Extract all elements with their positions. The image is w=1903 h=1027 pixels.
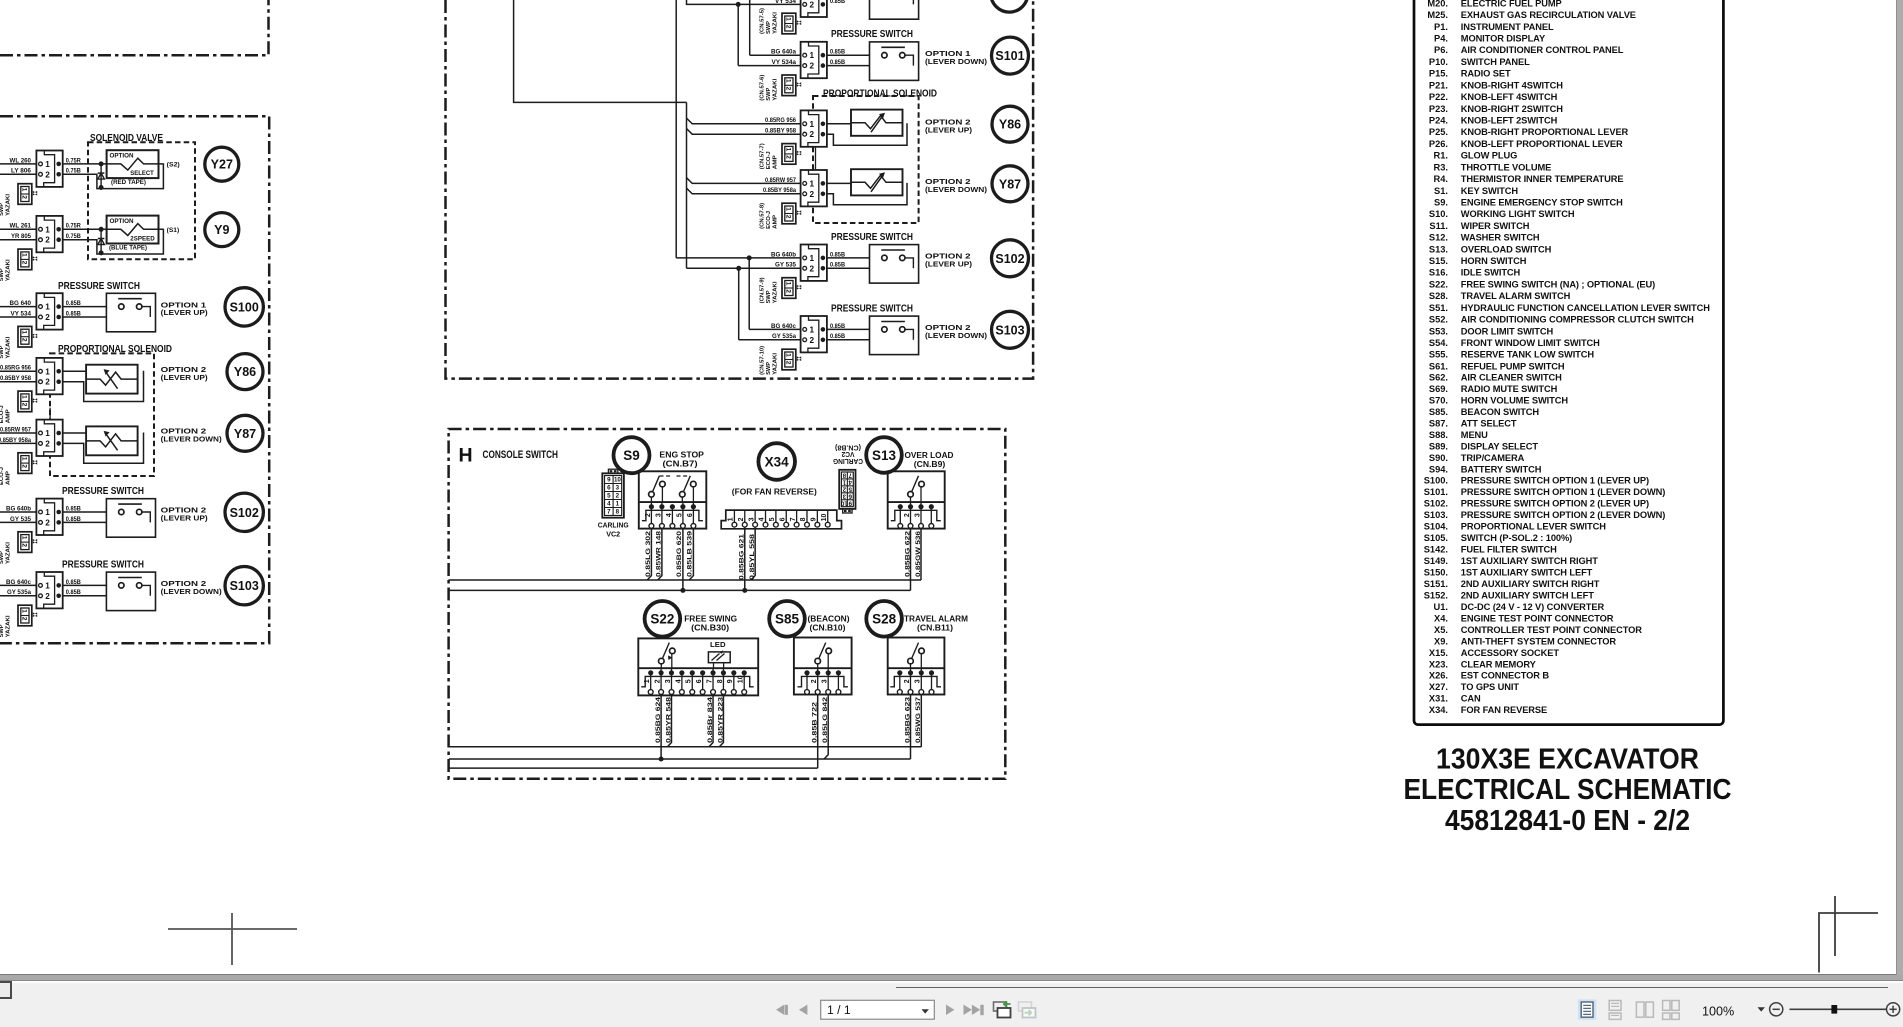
svg-text:CONSOLE SWITCH: CONSOLE SWITCH <box>483 449 559 461</box>
svg-text:0.85BY 958a: 0.85BY 958a <box>763 187 797 194</box>
connector Y87c (2-pin) <box>801 170 827 206</box>
svg-text:ECO-J: ECO-J <box>0 405 5 423</box>
wire S101 pin2 <box>827 65 916 67</box>
solenoid valve dashed box <box>88 142 195 259</box>
last page button <box>964 1005 984 1016</box>
wire S22 pin3 drop <box>667 695 671 747</box>
svg-text:2: 2 <box>810 130 815 139</box>
svg-text:S61.: S61. <box>1429 361 1448 371</box>
svg-text:(CN.57-6): (CN.57-6) <box>759 75 765 101</box>
svg-text:THERMISTOR INNER TEMPERATURE: THERMISTOR INNER TEMPERATURE <box>1461 174 1624 184</box>
wire Y27 pin2 return <box>63 163 164 188</box>
svg-text:6: 6 <box>696 679 703 683</box>
svg-text:(S2): (S2) <box>167 161 180 168</box>
svg-text:1: 1 <box>21 457 28 461</box>
svg-text:AMP: AMP <box>6 409 12 423</box>
svg-text:1: 1 <box>785 282 792 286</box>
diode Y27 flyback <box>100 164 102 188</box>
page number box <box>821 1000 935 1019</box>
svg-text:VY 534: VY 534 <box>11 310 32 317</box>
svg-text:M25.: M25. <box>1427 10 1448 20</box>
svg-text:X4.: X4. <box>1434 613 1448 623</box>
circle S102 center <box>992 240 1029 277</box>
connector S13 pins <box>891 510 941 520</box>
svg-text:KNOB-RIGHT PROPORTIONAL LEVER: KNOB-RIGHT PROPORTIONAL LEVER <box>1461 127 1629 137</box>
previous page button <box>799 1005 807 1015</box>
svg-text:DISPLAY SELECT: DISPLAY SELECT <box>1461 441 1539 451</box>
svg-text:S102: S102 <box>230 506 259 520</box>
svg-text:S22: S22 <box>650 612 674 627</box>
svg-text:S103.: S103. <box>1424 510 1448 520</box>
svg-text:AMP: AMP <box>773 155 779 169</box>
wire S103L pin1 <box>63 584 118 586</box>
svg-text:1: 1 <box>785 148 792 152</box>
wire top stub to S100c pin2 <box>687 0 805 4</box>
svg-text:2: 2 <box>810 0 815 9</box>
circle Y87 left <box>227 415 263 451</box>
svg-text:KNOB-LEFT 4SWITCH: KNOB-LEFT 4SWITCH <box>1461 92 1558 102</box>
svg-text:1: 1 <box>810 179 815 188</box>
svg-text:AIR CONDITIONING COMPRESSOR CL: AIR CONDITIONING COMPRESSOR CLUTCH SWITC… <box>1461 315 1694 325</box>
junction dot S102c pin2 / Vf <box>736 266 741 271</box>
svg-text:1: 1 <box>45 303 50 312</box>
svg-text:S69.: S69. <box>1429 384 1448 394</box>
svg-text:SWP: SWP <box>0 268 5 281</box>
svg-text:(LEVER DOWN): (LEVER DOWN) <box>161 435 223 444</box>
connector S102L (2-pin) <box>36 499 62 535</box>
svg-text:FREE SWING SWITCH (NA) ; OPTIO: FREE SWING SWITCH (NA) ; OPTIONAL (EU) <box>1461 279 1655 289</box>
svg-text:S102: S102 <box>995 252 1024 266</box>
svg-text:4: 4 <box>666 513 673 517</box>
wire harness V1 <box>514 0 687 102</box>
svg-text:OPTION: OPTION <box>110 218 134 225</box>
switch pole S9b <box>680 492 686 498</box>
circle S103 center <box>992 311 1029 348</box>
svg-text:P21.: P21. <box>1429 80 1448 90</box>
junction dot S9 pin5 on bus2 <box>680 588 685 593</box>
svg-text:S22.: S22. <box>1429 279 1448 289</box>
connector S85 pins <box>798 676 848 686</box>
svg-text:2: 2 <box>21 261 28 265</box>
svg-text:9: 9 <box>811 517 818 521</box>
svg-text:0.85BY 958: 0.85BY 958 <box>0 375 32 382</box>
svg-text:2: 2 <box>45 170 50 179</box>
wire Y87L pin2 return <box>63 433 144 464</box>
svg-text:FRONT WINDOW LIMIT SWITCH: FRONT WINDOW LIMIT SWITCH <box>1461 338 1600 348</box>
connector S100 (2-pin) <box>36 293 62 329</box>
wire S102L pin2 <box>63 521 151 523</box>
svg-text:9: 9 <box>607 477 611 484</box>
svg-text:KEY SWITCH: KEY SWITCH <box>1461 186 1519 196</box>
svg-text:0.85RG 956: 0.85RG 956 <box>765 117 797 124</box>
circle S85 <box>769 601 805 637</box>
svg-text:1: 1 <box>616 501 620 508</box>
svg-text:8: 8 <box>616 509 620 516</box>
svg-text:S85.: S85. <box>1429 407 1448 417</box>
wire GY 535a <box>739 339 801 341</box>
svg-text:SWP: SWP <box>0 203 5 216</box>
svg-text:ENGINE TEST POINT CONNECTOR: ENGINE TEST POINT CONNECTOR <box>1461 613 1614 623</box>
svg-text:(BLUE TAPE): (BLUE TAPE) <box>109 245 147 252</box>
bus wire 3 (console lower) <box>449 746 921 748</box>
wire 0.85BY 958 <box>0 381 36 383</box>
pressure switch S102c <box>870 245 919 284</box>
svg-text:S102.: S102. <box>1424 499 1448 509</box>
svg-text:BG 640b: BG 640b <box>6 505 31 512</box>
svg-text:ENGINE EMERGENCY STOP SWITCH: ENGINE EMERGENCY STOP SWITCH <box>1461 197 1623 207</box>
diode Y9 flyback <box>100 229 102 253</box>
svg-text:0.85BY 958a: 0.85BY 958a <box>0 437 32 444</box>
svg-text:MONITOR DISPLAY: MONITOR DISPLAY <box>1461 34 1546 44</box>
svg-text:0.85WG 537: 0.85WG 537 <box>915 696 922 743</box>
svg-text:YAZAKI: YAZAKI <box>773 281 779 303</box>
svg-text:P23.: P23. <box>1429 104 1448 114</box>
svg-text:BG 640a: BG 640a <box>771 49 797 56</box>
wire BG 640 <box>0 306 36 308</box>
circle S103 left <box>225 567 263 605</box>
svg-text:1ST AUXILIARY SWITCH RIGHT: 1ST AUXILIARY SWITCH RIGHT <box>1461 556 1598 566</box>
svg-text:1: 1 <box>45 367 50 376</box>
svg-text:2: 2 <box>21 195 28 199</box>
svg-text:(LEVER UP): (LEVER UP) <box>161 514 209 523</box>
svg-text:0.85RW 957: 0.85RW 957 <box>0 426 31 433</box>
wire GY 535 (left) <box>0 521 36 523</box>
svg-text:KNOB-LEFT PROPORTIONAL LEVER: KNOB-LEFT PROPORTIONAL LEVER <box>1461 139 1623 149</box>
svg-text:U1.: U1. <box>1434 602 1448 612</box>
svg-text:S88.: S88. <box>1429 430 1448 440</box>
svg-text:2SPEED: 2SPEED <box>130 236 155 243</box>
svg-text:Y9: Y9 <box>214 223 229 237</box>
wire BG 640c (left) <box>0 584 36 586</box>
svg-text:R3.: R3. <box>1434 162 1448 172</box>
svg-text:REFUEL PUMP SWITCH: REFUEL PUMP SWITCH <box>1461 361 1565 371</box>
svg-text:6: 6 <box>607 485 611 492</box>
svg-text:(CN.57-9): (CN.57-9) <box>759 277 765 303</box>
switch box S85 <box>794 638 852 695</box>
circle S101 <box>992 37 1029 74</box>
svg-text:P1.: P1. <box>1434 22 1448 32</box>
svg-text:OVERLOAD SWITCH: OVERLOAD SWITCH <box>1461 244 1552 254</box>
svg-text:SWP: SWP <box>766 290 772 303</box>
svg-text:S87.: S87. <box>1429 418 1448 428</box>
wire S28 pin3 drop <box>920 695 922 747</box>
zoom in button <box>1887 1003 1900 1016</box>
wire S85 pin3 drop <box>824 695 828 760</box>
svg-text:1: 1 <box>810 120 815 129</box>
svg-text:ATT SELECT: ATT SELECT <box>1461 418 1517 428</box>
svg-text:X27.: X27. <box>1429 682 1448 692</box>
svg-text:2: 2 <box>645 513 652 517</box>
svg-text:M20.: M20. <box>1427 0 1448 8</box>
component list panel border <box>1414 0 1723 725</box>
facing pages icon <box>1636 1002 1653 1017</box>
svg-text:WASHER SWITCH: WASHER SWITCH <box>1461 233 1540 243</box>
svg-text:PROPORTIONAL SOLENOID: PROPORTIONAL SOLENOID <box>823 89 937 100</box>
svg-text:ECO-J: ECO-J <box>766 151 772 169</box>
svg-text:3: 3 <box>914 513 921 517</box>
svg-text:KNOB-LEFT 2SWITCH: KNOB-LEFT 2SWITCH <box>1461 116 1558 126</box>
svg-text:3: 3 <box>748 517 755 521</box>
svg-text:0.85BG 624: 0.85BG 624 <box>655 696 662 743</box>
svg-text:2: 2 <box>21 403 28 407</box>
wire Y9 pin2 return <box>63 229 164 254</box>
wire WL 260 <box>0 163 36 165</box>
svg-text:1: 1 <box>45 225 50 234</box>
svg-text:ELECTRIC FUEL PUMP: ELECTRIC FUEL PUMP <box>1461 0 1562 8</box>
svg-text:WIPER SWITCH: WIPER SWITCH <box>1461 221 1530 231</box>
svg-text:(CN.B9): (CN.B9) <box>914 459 946 469</box>
svg-text:BG 640: BG 640 <box>10 300 32 307</box>
svg-text:5: 5 <box>769 517 776 521</box>
svg-text:(CN.57-10): (CN.57-10) <box>759 346 765 375</box>
connector icon (Y86L) <box>18 391 32 412</box>
circle Y87 center <box>992 166 1028 202</box>
svg-text:2: 2 <box>810 62 815 71</box>
svg-text:3: 3 <box>665 679 672 683</box>
svg-text:WL 260: WL 260 <box>10 157 32 164</box>
svg-text:PRESSURE SWITCH OPTION 1 (LEVE: PRESSURE SWITCH OPTION 1 (LEVER UP) <box>1461 476 1649 486</box>
svg-text:130X3E EXCAVATOR: 130X3E EXCAVATOR <box>1436 743 1699 775</box>
connector icon (Y87L) <box>18 453 32 474</box>
svg-text:ECO-J: ECO-J <box>0 467 5 485</box>
svg-text:4: 4 <box>759 517 766 521</box>
svg-text:2: 2 <box>45 378 50 387</box>
wire S103L pin2 <box>63 595 151 597</box>
svg-text:YAZAKI: YAZAKI <box>6 615 12 637</box>
svg-text:0.85BG 620: 0.85BG 620 <box>676 530 683 577</box>
wire S101 pin1 <box>827 54 881 56</box>
svg-text:1: 1 <box>785 17 792 21</box>
proportional solenoid Y87c <box>851 169 903 195</box>
circle S9 <box>614 437 650 473</box>
svg-text:LY 806: LY 806 <box>11 168 32 175</box>
svg-text:5: 5 <box>607 493 611 500</box>
svg-text:5: 5 <box>686 679 693 683</box>
svg-text:1: 1 <box>21 188 28 192</box>
svg-text:2: 2 <box>45 518 50 527</box>
svg-text:KNOB-RIGHT 4SWITCH: KNOB-RIGHT 4SWITCH <box>1461 80 1563 90</box>
bus wire 2 (console upper) <box>449 589 911 591</box>
svg-text:S103: S103 <box>995 323 1024 337</box>
svg-text:R4.: R4. <box>1434 174 1448 184</box>
svg-text:9: 9 <box>727 679 734 683</box>
switch pole S28 <box>908 658 914 664</box>
svg-text:8: 8 <box>842 472 846 479</box>
proportional solenoid Y87L <box>86 426 138 455</box>
connector Y9 (2-pin) <box>36 216 62 252</box>
svg-text:BEACON SWITCH: BEACON SWITCH <box>1461 407 1540 417</box>
svg-text:BG 640c: BG 640c <box>6 579 32 586</box>
svg-text:ECO-J: ECO-J <box>766 211 772 229</box>
svg-text:2ND AUXILIARY SWITCH RIGHT: 2ND AUXILIARY SWITCH RIGHT <box>1461 579 1600 589</box>
svg-text:S54.: S54. <box>1429 338 1448 348</box>
svg-text:4: 4 <box>675 679 682 683</box>
svg-text:YAZAKI: YAZAKI <box>6 336 12 358</box>
wire S102c pin2 <box>827 267 916 269</box>
wire Y86L pin1 to coil <box>63 370 86 372</box>
switch box S9 <box>639 471 707 528</box>
svg-text:2: 2 <box>21 464 28 468</box>
svg-text:S1.: S1. <box>1434 186 1448 196</box>
connector S103c (2-pin) <box>801 316 827 352</box>
pressure switch S103L <box>106 572 155 611</box>
svg-text:SWP: SWP <box>0 624 5 637</box>
next page button <box>946 1005 954 1015</box>
svg-text:S151.: S151. <box>1424 579 1448 589</box>
first page button <box>776 1005 788 1015</box>
svg-text:5: 5 <box>676 513 683 517</box>
svg-text:(CN.B11): (CN.B11) <box>917 622 953 632</box>
connector icon (S100) <box>18 326 32 347</box>
wire S9 pin2 drop <box>647 529 651 580</box>
continuous mode icon <box>1609 1001 1621 1020</box>
connector icon (Y87c) <box>782 203 796 224</box>
svg-text:S28.: S28. <box>1429 291 1448 301</box>
zoom out button <box>1770 1003 1783 1016</box>
svg-text:FUEL FILTER SWITCH: FUEL FILTER SWITCH <box>1461 545 1557 555</box>
svg-text:3: 3 <box>915 679 922 683</box>
svg-text:X34: X34 <box>765 454 790 469</box>
svg-text:X9.: X9. <box>1434 636 1448 646</box>
svg-text:EST CONNECTOR B: EST CONNECTOR B <box>1461 671 1550 681</box>
svg-text:THROTTLE VOLUME: THROTTLE VOLUME <box>1461 162 1551 172</box>
wire BG 640b <box>676 257 800 259</box>
svg-text:TO GPS UNIT: TO GPS UNIT <box>1461 682 1520 692</box>
svg-text:2: 2 <box>616 493 620 500</box>
svg-text:YR 805: YR 805 <box>11 233 32 240</box>
wire GY 535 <box>687 267 801 269</box>
connector icon (Y86c) <box>782 144 796 165</box>
svg-text:P6.: P6. <box>1434 45 1448 55</box>
wire Y86c pin2 return <box>827 123 907 145</box>
svg-text:S51.: S51. <box>1429 303 1448 313</box>
svg-text:YAZAKI: YAZAKI <box>6 542 12 564</box>
junction dot S22 pin2 on bus4 <box>659 757 664 762</box>
svg-text:2: 2 <box>21 617 28 621</box>
svg-text:HYDRAULIC FUNCTION CANCELLATIO: HYDRAULIC FUNCTION CANCELLATION LEVER SW… <box>1461 303 1710 313</box>
proportional solenoid dashed box (center) <box>813 96 919 223</box>
svg-text:CARLING: CARLING <box>598 520 629 529</box>
svg-text:S90.: S90. <box>1429 453 1448 463</box>
wire harness Vf <box>738 268 740 340</box>
svg-text:8: 8 <box>717 679 724 683</box>
svg-text:RADIO SET: RADIO SET <box>1461 69 1511 79</box>
svg-text:PRESSURE SWITCH: PRESSURE SWITCH <box>831 303 913 314</box>
svg-text:BG 640c: BG 640c <box>771 323 797 330</box>
svg-text:S104.: S104. <box>1424 522 1448 532</box>
svg-text:(FOR FAN REVERSE): (FOR FAN REVERSE) <box>732 486 817 496</box>
svg-text:YAZAKI: YAZAKI <box>6 193 12 215</box>
svg-text:1 / 1: 1 / 1 <box>827 1003 851 1017</box>
svg-text:INSTRUMENT PANEL: INSTRUMENT PANEL <box>1461 22 1554 32</box>
svg-text:(LEVER DOWN): (LEVER DOWN) <box>925 57 988 66</box>
solenoid coil Y9 <box>107 216 159 244</box>
svg-text:2: 2 <box>904 679 911 683</box>
svg-text:2: 2 <box>811 679 818 683</box>
svg-text:1: 1 <box>810 325 815 334</box>
proportional solenoid dashed box (left) <box>50 353 154 476</box>
crop mark cross (bottom left) <box>168 928 297 930</box>
svg-text:HORN SWITCH: HORN SWITCH <box>1461 256 1527 266</box>
page bottom shadow line <box>0 974 1903 975</box>
svg-text:SWP: SWP <box>766 362 772 375</box>
bus wire 5 (console lower) <box>449 767 818 769</box>
svg-text:0.85RG 956: 0.85RG 956 <box>0 365 32 372</box>
svg-text:2: 2 <box>785 155 792 159</box>
connector icon (S103L) <box>18 605 32 626</box>
svg-text:SWP: SWP <box>0 345 5 358</box>
svg-text:1: 1 <box>785 353 792 357</box>
svg-text:2: 2 <box>21 543 28 547</box>
vertical scrollbar strip (right edge) <box>1896 0 1903 975</box>
circle S100 center (partial) <box>991 0 1028 12</box>
wire S103c pin2 <box>827 339 916 341</box>
svg-text:PRESSURE SWITCH OPTION 1 (LEVE: PRESSURE SWITCH OPTION 1 (LEVER DOWN) <box>1461 487 1665 497</box>
zoom slider <box>1790 1008 1887 1010</box>
switch box S13 <box>888 471 945 528</box>
svg-text:0.85YL 558: 0.85YL 558 <box>749 533 756 580</box>
facing continuous icon <box>1663 1001 1680 1020</box>
circle S100 <box>225 288 263 326</box>
wire harness Vd <box>737 4 739 65</box>
wire 0.85BY 958a <box>687 188 801 194</box>
proportional solenoid Y86c <box>851 110 903 136</box>
svg-text:(LEVER DOWN): (LEVER DOWN) <box>925 185 988 194</box>
svg-text:2: 2 <box>45 236 50 245</box>
svg-text:GY 535a: GY 535a <box>7 589 32 596</box>
next view icon (disabled) <box>1019 1002 1036 1018</box>
connector S9 pins <box>642 510 703 520</box>
connector S22 pins <box>641 676 754 686</box>
circle S28 <box>866 601 902 637</box>
wire GY 535a (left) <box>0 595 36 597</box>
svg-text:2: 2 <box>785 87 792 91</box>
wire S28 pin2 drop <box>910 695 912 760</box>
label (CN.B8) <box>834 443 861 452</box>
wire 0.85RW 957 <box>687 178 801 184</box>
svg-text:7: 7 <box>706 679 713 683</box>
svg-text:HORN VOLUME SWITCH: HORN VOLUME SWITCH <box>1461 395 1569 405</box>
svg-text:1: 1 <box>21 253 28 257</box>
connector icon (S100c) <box>782 13 796 34</box>
svg-text:PROPORTIONAL LEVER SWITCH: PROPORTIONAL LEVER SWITCH <box>1461 522 1606 532</box>
svg-text:(CN.B30): (CN.B30) <box>691 622 729 632</box>
wire X34 pin2 drop <box>744 527 746 590</box>
horizontal scrollbar thumb <box>896 987 1888 988</box>
connector Y27 (2-pin) <box>36 151 62 187</box>
svg-text:S15.: S15. <box>1429 256 1448 266</box>
circle Y27 <box>205 147 239 181</box>
connector S28 pins <box>890 676 941 686</box>
wire Y86c-Y87c link <box>815 146 817 169</box>
svg-text:PRESSURE SWITCH: PRESSURE SWITCH <box>62 486 144 497</box>
svg-text:TRIP/CAMERA: TRIP/CAMERA <box>1461 453 1525 463</box>
circle Y86 center <box>992 106 1028 142</box>
svg-text:2: 2 <box>45 592 50 601</box>
svg-text:PRESSURE SWITCH: PRESSURE SWITCH <box>58 281 140 292</box>
svg-text:0.85B: 0.85B <box>830 0 845 5</box>
svg-text:S28: S28 <box>872 612 897 627</box>
svg-text:S94.: S94. <box>1429 464 1448 474</box>
svg-text:1: 1 <box>21 609 28 613</box>
left option-group box border <box>0 116 269 643</box>
svg-text:AIR CLEANER SWITCH: AIR CLEANER SWITCH <box>1461 373 1562 383</box>
svg-text:0.85LG 302: 0.85LG 302 <box>645 530 652 577</box>
svg-text:(LEVER UP): (LEVER UP) <box>925 260 973 269</box>
svg-text:S12.: S12. <box>1429 233 1448 243</box>
svg-text:BG 640b: BG 640b <box>771 251 796 258</box>
connector X34 strip <box>721 510 841 529</box>
